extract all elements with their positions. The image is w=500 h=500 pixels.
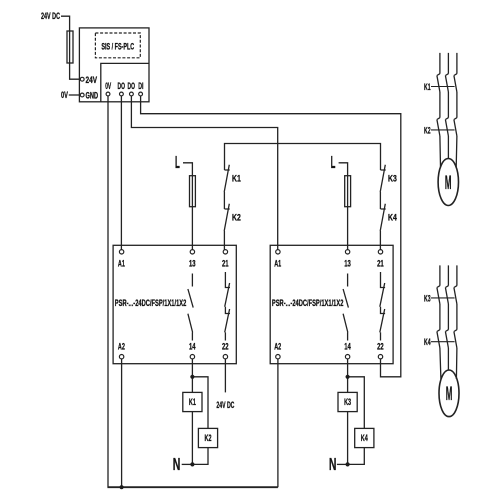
wire 0V to GND terminal — [69, 94, 81, 96]
svg-text:K1: K1 — [424, 82, 431, 92]
wire phases K3 to K4 — [440, 304, 457, 330]
svg-text:21: 21 — [222, 258, 229, 268]
wire relay1 A2 to rail — [121, 359, 123, 487]
terminal relay1 21 — [223, 250, 227, 254]
relay U1 box — [113, 245, 236, 363]
wire branch to K2 coil — [192, 377, 208, 429]
wire phases K4 to motor M2 — [440, 348, 457, 379]
svg-text:DO: DO — [128, 81, 135, 91]
svg-text:M: M — [445, 173, 452, 194]
terminal DO2 — [130, 92, 134, 96]
terminal relay1 22 — [223, 355, 227, 359]
coil K1 box — [183, 392, 202, 411]
junction N2 — [346, 462, 350, 466]
wire K4 coil to N junction — [348, 448, 365, 465]
relay U1 NO contact 13-14 — [188, 274, 193, 341]
terminal relay2 13 — [345, 250, 349, 254]
terminal 24V — [80, 77, 84, 81]
terminal relay2 22 — [378, 355, 382, 359]
wire relay1 22 to 24VDC — [224, 359, 226, 392]
svg-text:K2: K2 — [205, 433, 212, 443]
terminal relay1 14 — [190, 355, 194, 359]
junction rail A2 relay1 — [120, 485, 124, 489]
motor M1 — [438, 159, 458, 206]
terminal GND — [80, 93, 84, 97]
terminal relay2 A2 — [276, 355, 280, 359]
wire branch to K4 coil — [348, 377, 365, 429]
PLC box — [79, 28, 149, 102]
svg-text:13: 13 — [344, 258, 351, 268]
contact K2 aux NC — [224, 204, 230, 250]
svg-text:24V DC: 24V DC — [216, 400, 234, 410]
svg-text:PSR-...-24DC/FSP/1X1/1X2: PSR-...-24DC/FSP/1X1/1X2 — [115, 298, 187, 308]
svg-text:L: L — [175, 152, 180, 172]
coil K3 box — [338, 392, 357, 411]
svg-text:K1: K1 — [232, 173, 241, 183]
contactor K4 main contacts — [437, 330, 457, 348]
svg-text:K3: K3 — [424, 293, 431, 303]
motor branch 2 phase lines — [440, 265, 457, 285]
wire phases K1 to K2 — [440, 92, 457, 118]
svg-text:24V DC: 24V DC — [41, 11, 60, 21]
relay U2 box — [270, 245, 393, 363]
wire relay1 14 to coils — [191, 359, 193, 392]
fuse F1 — [67, 31, 73, 63]
contact K1 aux NC — [224, 165, 230, 209]
terminal relay2 14 — [345, 355, 349, 359]
contactor K2 linkage — [431, 129, 455, 131]
wire 24VDC supply to PLC 24V terminal — [61, 16, 80, 79]
coil K4 box — [355, 428, 374, 447]
wire DI feedback loop — [141, 96, 401, 377]
terminal DO1 — [120, 92, 124, 96]
wire N2 stub — [337, 463, 348, 465]
svg-text:K2: K2 — [424, 125, 431, 135]
svg-text:A1: A1 — [274, 258, 281, 268]
terminal 0V — [106, 92, 110, 96]
wire relay2 14 to coils — [347, 359, 349, 392]
motor M2 — [439, 370, 459, 417]
svg-text:A2: A2 — [274, 342, 281, 352]
relay U1 NC contact 21-22 — [225, 272, 230, 341]
wire DO2 to relay2 A1 — [131, 96, 277, 250]
terminal relay2 21 — [378, 250, 382, 254]
terminal relay1 A1 — [119, 250, 123, 254]
svg-text:L: L — [331, 152, 336, 172]
fuse F3 — [345, 176, 351, 207]
svg-text:0V: 0V — [61, 90, 68, 100]
svg-text:0V: 0V — [105, 81, 111, 91]
wire K1 coil to N — [191, 412, 193, 465]
svg-text:DI: DI — [138, 81, 143, 91]
svg-text:K1: K1 — [189, 397, 196, 407]
relay U2 NO contact 13-14 — [343, 274, 348, 341]
wire 0V rail from PLC 0V terminal down — [107, 96, 109, 487]
svg-text:21: 21 — [377, 258, 384, 268]
contactor K4 linkage — [431, 341, 455, 343]
wire DO1 to relay1 A1 — [120, 96, 122, 250]
svg-text:A2: A2 — [118, 342, 125, 352]
wire phases K2 to motor M1 — [440, 136, 457, 167]
contactor K2 main contacts — [437, 118, 457, 136]
svg-text:SIS / FS-PLC: SIS / FS-PLC — [101, 42, 134, 52]
wire K3 coil to N — [347, 412, 349, 465]
svg-text:22: 22 — [222, 342, 229, 352]
contactor K1 linkage — [431, 86, 455, 88]
terminal DI — [139, 92, 143, 96]
wire relay2 A2 to rail — [277, 359, 279, 487]
svg-text:PSR-...-24DC/FSP/1X1/1X2: PSR-...-24DC/FSP/1X1/1X2 — [272, 298, 344, 308]
contact K4 aux NC — [380, 204, 386, 250]
wire L1 to fuse to relay1 13 — [183, 163, 192, 250]
svg-text:A1: A1 — [118, 258, 125, 268]
svg-text:K4: K4 — [388, 212, 397, 222]
terminal relay2 A1 — [276, 250, 280, 254]
svg-text:N: N — [329, 454, 337, 474]
svg-text:N: N — [173, 454, 181, 474]
contactor K1 main contacts — [437, 74, 457, 92]
contactor K3 main contacts — [437, 286, 457, 304]
svg-text:K3: K3 — [344, 397, 351, 407]
relay U2 NC contact 21-22 — [380, 272, 385, 341]
junction relay2 14 branch — [346, 375, 350, 379]
svg-text:13: 13 — [189, 258, 196, 268]
motor branch 1 phase lines — [440, 53, 457, 74]
wire L2 to fuse to relay2 13 — [339, 163, 348, 250]
wire bottom 0V rail — [107, 486, 278, 488]
svg-text:14: 14 — [344, 342, 351, 352]
svg-text:14: 14 — [189, 342, 196, 352]
contactor K3 linkage — [431, 297, 455, 299]
svg-text:GND: GND — [86, 90, 99, 100]
dashed box SIS/FS-PLC — [95, 33, 140, 58]
junction relay1 14 branch — [190, 375, 194, 379]
svg-text:K3: K3 — [388, 173, 397, 183]
svg-text:K4: K4 — [361, 433, 368, 443]
coil K2 box — [198, 428, 217, 447]
svg-text:M: M — [446, 384, 453, 405]
wire feedback link K1 chain to K3 chain — [225, 144, 381, 171]
svg-text:DO: DO — [118, 81, 125, 91]
wire N1 stub — [182, 463, 193, 465]
junction N1 — [190, 462, 194, 466]
wire K2 coil to N junction — [192, 448, 208, 465]
contact K3 aux NC — [380, 165, 386, 209]
PLC terminal sub-box — [101, 63, 149, 101]
terminal relay1 A2 — [119, 355, 123, 359]
fuse F2 — [190, 176, 196, 207]
svg-text:24V: 24V — [86, 75, 98, 85]
svg-text:K4: K4 — [424, 337, 431, 347]
terminal relay1 13 — [190, 250, 194, 254]
svg-text:22: 22 — [377, 342, 384, 352]
svg-text:K2: K2 — [232, 212, 241, 222]
